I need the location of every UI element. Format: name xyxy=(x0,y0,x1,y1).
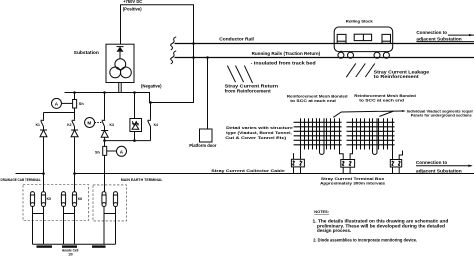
resistor Sh2 shunt xyxy=(95,146,107,155)
bond loop mesh 2 xyxy=(373,118,378,154)
terminal box SCC 2 xyxy=(340,150,355,174)
node Reinforcement Mesh Bonded label 1 xyxy=(287,94,348,103)
svg-text:Running Rails (Traction Return: Running Rails (Traction Return) xyxy=(252,51,321,56)
junction arrester / bar xyxy=(133,139,136,142)
node Stray Current Return from Reinforcement label xyxy=(225,84,279,94)
svg-text:Connection to: Connection to xyxy=(416,160,448,165)
wire branch tee to K1 xyxy=(44,112,75,114)
svg-text:(Negative): (Negative) xyxy=(141,84,162,89)
bond loop mesh 1 xyxy=(320,118,325,154)
wire substation negative double lead xyxy=(119,83,121,93)
surge arrester box xyxy=(130,93,142,141)
wire break symbol conductor rail xyxy=(171,37,177,50)
junction bus / arrester branch xyxy=(133,91,136,94)
stray current leakage hatch (under train) xyxy=(346,63,375,77)
svg-text:Stray Current Collector Cable: Stray Current Collector Cable xyxy=(211,168,286,173)
ammeter A1 xyxy=(52,98,73,108)
svg-text:adjacent Substation: adjacent Substation xyxy=(416,169,462,174)
switch K3 xyxy=(102,93,114,128)
switch K4 xyxy=(147,101,158,140)
svg-text:K5: K5 xyxy=(47,197,51,201)
svg-text:to SCC at each end: to SCC at each end xyxy=(290,98,336,103)
node Detail varies label xyxy=(225,125,293,140)
diode D1 drainage xyxy=(40,127,47,193)
link L5 xyxy=(102,192,106,207)
platform door box xyxy=(189,129,216,148)
wire break symbol running rail xyxy=(171,51,177,64)
svg-text:1/0: 1/0 xyxy=(68,252,73,256)
svg-text:(Positive): (Positive) xyxy=(123,7,142,12)
transformer windings substation xyxy=(110,59,132,78)
svg-text:to SCC at each end: to SCC at each end xyxy=(359,98,404,103)
switch K2 xyxy=(67,113,75,128)
junction running rail / negative return xyxy=(192,56,195,59)
junction running rail / platform bond xyxy=(206,56,209,59)
svg-text:Platform door: Platform door xyxy=(189,143,216,148)
svg-text:M: M xyxy=(87,121,91,126)
svg-text:+750V DC: +750V DC xyxy=(123,0,143,4)
earth electrode 3 xyxy=(92,245,106,247)
motor actuator M xyxy=(85,118,102,128)
svg-text:adjacent Substation: adjacent Substation xyxy=(416,37,462,42)
reinforcement mesh 2 xyxy=(347,118,395,149)
svg-text:Panels for underground section: Panels for underground sections xyxy=(411,113,473,118)
link L4 (K6) xyxy=(72,192,76,207)
terminal box SCC 3 xyxy=(390,150,402,174)
earth electrode 1 xyxy=(37,245,53,247)
junction collector cable / D1 lead xyxy=(42,172,45,175)
stray current leakage hatch (left) xyxy=(227,66,252,83)
junction collector cable / D2 lead xyxy=(73,172,76,175)
node Stray Current Leakage to Reinforcement label xyxy=(374,69,430,79)
svg-text:A: A xyxy=(120,149,124,154)
svg-text:K2: K2 xyxy=(67,123,71,127)
terminal box SCC 1 xyxy=(291,150,304,174)
reinforcement mesh 1 xyxy=(294,118,342,149)
svg-text:Connection to: Connection to xyxy=(416,30,447,35)
node Individual Viaduct segments label xyxy=(407,108,474,117)
svg-text:2. Diode assemblies to incorpo: 2. Diode assemblies to incorporate monit… xyxy=(313,238,417,243)
wire leader to mesh bonds xyxy=(333,110,406,117)
svg-text:Approximately 300m intervals: Approximately 300m intervals xyxy=(320,180,386,185)
node Connection to adjacent Substation (top) xyxy=(416,30,474,41)
stray current collector cable xyxy=(75,173,474,175)
svg-text:Sh: Sh xyxy=(79,102,85,106)
earth electrode 2 xyxy=(62,245,77,247)
svg-text:K4: K4 xyxy=(154,123,158,127)
substation U1 xyxy=(74,44,134,82)
rectifier diode substation xyxy=(117,47,124,59)
resistor Sh1 shunt xyxy=(73,93,85,113)
link L6 xyxy=(113,192,117,207)
svg-text:- Insulated from track bed: - Insulated from track bed xyxy=(251,61,316,66)
svg-text:MAIN EARTH TERMINAL: MAIN EARTH TERMINAL xyxy=(121,178,163,182)
junction bus / shunt branch xyxy=(73,91,76,94)
svg-text:K3: K3 xyxy=(110,123,114,127)
svg-text:A: A xyxy=(55,101,59,106)
train rolling stock xyxy=(334,19,393,59)
ammeter A2 xyxy=(107,146,127,156)
drainage cabin enclosure (dashed) xyxy=(23,185,89,221)
conductor rail xyxy=(175,43,474,45)
svg-text:Conductor Rail: Conductor Rail xyxy=(219,37,254,42)
wire junction bar xyxy=(105,140,151,142)
node Anode Cell label xyxy=(62,249,78,257)
svg-text:Cut & Cover Tunnel Etc): Cut & Cover Tunnel Etc) xyxy=(225,135,287,140)
svg-text:K6: K6 xyxy=(78,197,82,201)
svg-text:Sh: Sh xyxy=(95,150,101,154)
node Connection to adjacent Substation (bottom) xyxy=(416,160,473,174)
wire platform bond xyxy=(207,58,209,130)
svg-text:design process.: design process. xyxy=(317,228,351,233)
earth electrode bus xyxy=(33,243,116,245)
junction K3 branch / bar xyxy=(103,139,106,142)
svg-text:DRAINAGE CAB TERMINAL: DRAINAGE CAB TERMINAL xyxy=(1,178,42,182)
junction bus / K3 branch xyxy=(103,91,106,94)
node Stray Current Terminal Box label xyxy=(320,176,386,185)
diode D2 drainage xyxy=(71,127,78,193)
svg-text:Substation: Substation xyxy=(74,50,100,55)
svg-text:NOTES:: NOTES: xyxy=(314,210,329,214)
link L2 (K5) xyxy=(41,192,45,207)
node Reinforcement Mesh Bonded label 2 xyxy=(354,93,416,102)
running rail xyxy=(175,57,474,59)
wire main earth lead xyxy=(104,155,106,192)
svg-text:from Reinforcement: from Reinforcement xyxy=(225,88,272,93)
wire positive feeder +750V xyxy=(121,5,194,44)
stray current collector cable (left segment) xyxy=(16,173,44,175)
link L1 xyxy=(30,192,34,207)
wire link ties to earth electrodes xyxy=(33,206,116,244)
main earth enclosure (dashed) xyxy=(93,185,127,221)
svg-text:K1: K1 xyxy=(36,123,40,127)
wire negative return (rail to substation) xyxy=(65,44,194,103)
svg-text:Rolling Stock: Rolling Stock xyxy=(346,19,374,24)
notes block xyxy=(313,210,449,242)
svg-text:to Reinforcement: to Reinforcement xyxy=(374,74,420,79)
link L3 xyxy=(61,192,65,207)
switch K1 xyxy=(36,113,44,128)
junction conductor rail / feeder xyxy=(192,42,195,45)
diode D3 drainage xyxy=(101,127,108,147)
